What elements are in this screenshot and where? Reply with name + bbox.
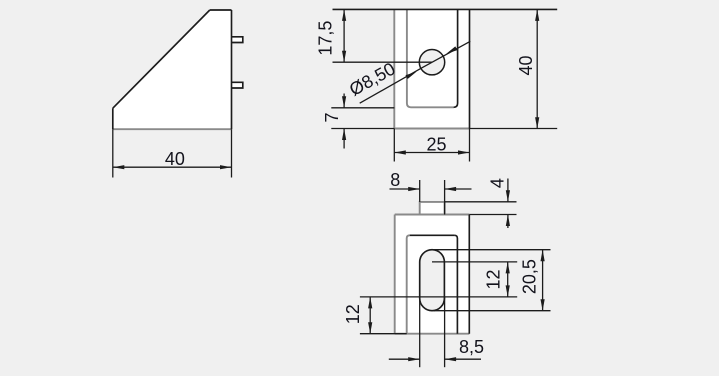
dim 8,5 arrow right xyxy=(445,357,457,361)
svg-text:12: 12 xyxy=(483,269,503,289)
dim 8 arrow left xyxy=(408,187,420,191)
dim 7 arrow bottom xyxy=(342,129,346,141)
dim 4 tail top xyxy=(507,179,509,202)
extension line 7/40 bottom left xyxy=(331,128,394,130)
arrow up xyxy=(506,262,510,274)
extension 12 left bottom xyxy=(360,333,407,335)
extension line left xyxy=(112,129,114,177)
extension above tab right xyxy=(444,180,446,215)
dim 7 arrow top xyxy=(342,96,346,108)
arrow right xyxy=(220,165,232,169)
bracket side profile fill xyxy=(113,10,232,129)
front face fill xyxy=(394,9,469,128)
extension line 25 left xyxy=(393,129,395,162)
extension 20,5 bottom xyxy=(434,310,551,312)
svg-text:8,5: 8,5 xyxy=(459,337,484,357)
extension 8,5 left xyxy=(419,297,421,367)
arrow down xyxy=(506,285,510,297)
outer top edge (gray) xyxy=(395,214,470,216)
outer left edge (gray) xyxy=(394,215,396,334)
svg-text:7: 7 xyxy=(322,112,342,122)
svg-text:8: 8 xyxy=(390,170,400,190)
arrow up xyxy=(368,297,372,309)
leader line lower xyxy=(360,68,422,103)
inner cavity left edge (gray) xyxy=(407,235,410,333)
leader line through circle xyxy=(421,41,470,68)
tab T1 fill xyxy=(232,37,243,43)
arrow up xyxy=(342,9,346,21)
arrow down xyxy=(541,299,545,311)
dimension line 17,5 xyxy=(343,9,345,62)
svg-text:17,5: 17,5 xyxy=(315,21,335,56)
arrow left xyxy=(113,165,125,169)
left short edge xyxy=(112,108,114,129)
dim 8 right segment xyxy=(445,188,472,190)
svg-text:40: 40 xyxy=(516,55,536,75)
right edge xyxy=(231,10,233,129)
bottom edge (gray) xyxy=(113,128,232,130)
extension above tab left xyxy=(419,180,421,202)
extension line 25 right xyxy=(469,129,471,162)
dim 4 arrow bottom xyxy=(506,215,510,227)
inner cavity top edge xyxy=(410,234,455,236)
dimension line 20,5 xyxy=(542,250,544,311)
chamfer diagonal edge xyxy=(113,10,210,108)
arrow down xyxy=(368,322,372,334)
dim 8,5 left segment xyxy=(389,358,420,360)
arrow down xyxy=(535,117,539,129)
dim 4 tail bottom xyxy=(507,215,509,229)
extension line right xyxy=(231,129,233,177)
extension line 7 top xyxy=(331,107,394,109)
dimension line 12 left xyxy=(369,297,371,334)
svg-text:12: 12 xyxy=(343,304,363,324)
extension 12 shared (bottom arc center) xyxy=(360,296,517,298)
dim 8 arrow right xyxy=(445,187,457,191)
inner cavity right edge xyxy=(454,235,457,333)
dim 7 arrow tail bottom xyxy=(343,129,345,149)
svg-text:4: 4 xyxy=(488,178,508,188)
tab T1 outline xyxy=(232,37,243,43)
tab fill xyxy=(420,202,445,215)
leader arrow lower-left xyxy=(406,72,417,79)
svg-text:20,5: 20,5 xyxy=(520,259,540,294)
arrow up xyxy=(541,250,545,262)
outer bottom edge (gray) xyxy=(395,333,470,335)
dimension line 25 xyxy=(394,152,469,154)
tab outline (gray) xyxy=(420,202,445,215)
hole circle xyxy=(419,50,444,75)
inner cavity left+bottom edge (gray) xyxy=(407,9,454,107)
arrow down xyxy=(342,51,346,63)
top edge xyxy=(210,9,232,11)
dimension line 12 right xyxy=(507,262,509,297)
outer right edge xyxy=(469,9,471,128)
extension 12r top (arc center) xyxy=(432,261,517,263)
inner cavity right edge xyxy=(454,9,458,107)
dimension line 40 right xyxy=(536,9,538,128)
top face fill xyxy=(395,215,470,334)
arrow up xyxy=(535,9,539,21)
extension line 40 bottom right xyxy=(470,128,558,130)
top edge + extension line xyxy=(333,8,558,10)
circle center extension line xyxy=(333,61,433,63)
extension 20,5 top xyxy=(434,249,551,251)
extension 4 top xyxy=(445,201,517,203)
extension 4 bottom xyxy=(469,214,516,216)
dim 8,5 arrow left xyxy=(408,357,420,361)
svg-text:40: 40 xyxy=(165,149,185,169)
dim 8 left segment xyxy=(390,188,420,190)
leader arrow upper-right xyxy=(446,46,457,53)
dim 8,5 right segment xyxy=(445,358,481,360)
slot capsule xyxy=(420,250,445,311)
arrow right xyxy=(458,150,470,154)
outer left edge (gray) xyxy=(393,9,395,128)
tab T2 outline xyxy=(232,82,243,88)
svg-text:25: 25 xyxy=(426,135,446,155)
outer bottom edge (gray) xyxy=(394,128,469,130)
arrow left xyxy=(394,150,406,154)
tab T2 fill xyxy=(232,82,243,88)
outer right edge xyxy=(468,215,470,334)
dim 7 arrow tail top xyxy=(343,94,345,108)
extension 8,5 right xyxy=(444,297,446,367)
dim 4 arrow top xyxy=(506,190,510,202)
dimension line 40 xyxy=(113,166,232,168)
